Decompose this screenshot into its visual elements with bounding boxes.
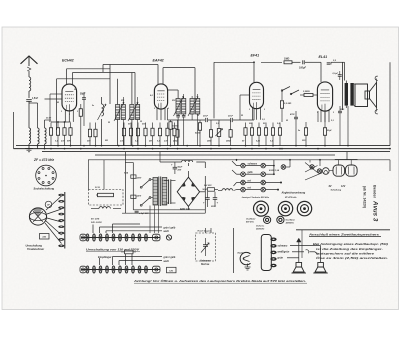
resistor 0.3M EL41 grid [300, 91, 317, 97]
wire HT distribution [122, 152, 205, 214]
screen resistor ECH42 [79, 104, 82, 146]
ground output jack [245, 264, 251, 271]
mains transformer [153, 177, 167, 207]
loudspeaker [355, 76, 378, 114]
output jack symbol [238, 252, 251, 265]
tuning arrow oscillator coil [98, 104, 107, 120]
IF transformer 2 secondary [190, 94, 200, 146]
wire to ground [28, 144, 30, 149]
trimmer capacitor 1 [264, 216, 271, 223]
capacitor 10nF coupling b [228, 116, 234, 123]
wire rectifier nodes [188, 163, 205, 213]
wire ECH42 anode top [57, 65, 158, 131]
dial lamp small [323, 168, 330, 175]
switch position box [40, 234, 50, 240]
label oszillator 600 [246, 218, 265, 231]
tube ECH42 [62, 84, 77, 122]
tube EL41 [317, 82, 332, 122]
pilot contact row gelb [237, 171, 274, 176]
resistor [144, 123, 147, 146]
wire HT right [331, 62, 390, 145]
coupling coil L2 [29, 128, 31, 144]
terminal strip lower [80, 266, 160, 273]
main bus wire 2 (chassis) [14, 148, 391, 150]
label Antennen-Buchse [199, 260, 212, 267]
second speaker 1 [292, 263, 307, 274]
tube EAF42 [154, 84, 167, 120]
wire transformer to mains strip [150, 206, 159, 234]
wire EAF42 top to EF41 grid line [158, 62, 254, 118]
capacitor tone at output transformer [338, 106, 342, 146]
second speaker 2 [313, 263, 328, 274]
main bus wire 3 [42, 151, 390, 153]
note Zweitlautsprecher text [313, 242, 388, 260]
resistor R1c [56, 123, 59, 146]
heater bus wire [95, 154, 335, 156]
pickup dashed box [196, 233, 216, 261]
alignment core 3 [297, 201, 311, 215]
motor boost dashed box [89, 187, 124, 205]
wires drum to lug strip [45, 196, 62, 244]
terminal strip upper [80, 234, 160, 241]
resistor [257, 123, 260, 146]
wire grid line left [51, 121, 71, 123]
resistor [173, 123, 176, 146]
vertical lug strip [58, 192, 65, 249]
wires terminal strip lower [100, 254, 163, 265]
speaker terminal block [261, 235, 276, 271]
wire EF41 grid [240, 61, 255, 120]
capacitor at EL41 top [327, 60, 337, 64]
caption bottom warning [133, 278, 307, 283]
wire dashed box feed [89, 160, 105, 190]
pilot contact a [310, 165, 314, 169]
fuse mains upper [124, 173, 136, 179]
resistor [244, 123, 247, 146]
alignment core 1 [254, 201, 269, 216]
pilot contact b [317, 169, 321, 173]
wire ECH42 grid left [45, 94, 63, 120]
alignment core 2 [278, 201, 292, 215]
wire antenna [28, 91, 30, 98]
capacitor IF2 tuning a [176, 114, 180, 146]
resistor [158, 123, 161, 146]
capacitor 1.5nF antenna [26, 98, 38, 101]
wire mains left vertical [125, 152, 133, 214]
resistor [264, 123, 267, 146]
speaker field choke [218, 189, 233, 191]
resistor R1d [63, 123, 66, 146]
tuning arrow IF1 secondary [128, 102, 138, 121]
bridge rectifier [177, 177, 199, 210]
tuning arrow IF1 primary [114, 102, 124, 121]
capacitor 50uF 25V [171, 162, 183, 174]
label Umschaltung 110 auf 220V [86, 247, 140, 251]
label Umschaltung Tonabnehmer [26, 244, 46, 252]
tube socket diagram [36, 165, 57, 186]
value labels row 2 [104, 124, 168, 143]
tuning arrow IF2 secondary [188, 97, 198, 117]
resistor 1 Mohm coupling [284, 57, 292, 64]
capacitor 4700pF tone [289, 111, 298, 146]
oscillator coil under ECH42 [102, 97, 104, 146]
panel border Zweitlautsprecher [296, 230, 390, 258]
drum switch ZF circle [45, 201, 52, 208]
electrolytic capacitor 50uF a [203, 189, 210, 207]
value labels row 3 [242, 123, 281, 143]
capacitor IF2 tuning b [182, 114, 186, 146]
fuse mains lower [131, 195, 136, 198]
wire antenna tap [29, 102, 38, 104]
IF transformer 1 primary [116, 79, 126, 146]
resistor [271, 123, 274, 146]
capacitor 10nF coupling a [203, 116, 209, 123]
label oszillator 1600 [286, 219, 296, 225]
pilot contact row rot [237, 179, 282, 184]
resistor R1b [49, 123, 52, 146]
resistor [250, 123, 253, 146]
resistor R1f [88, 123, 91, 146]
input tuned circuit coils [14, 103, 52, 149]
wire AF coupling [168, 108, 255, 120]
resistor R1e [69, 123, 72, 146]
mains lead-in coil [91, 207, 121, 209]
capacitor 3uF 30V [135, 211, 150, 215]
resistor [151, 123, 154, 146]
wire heater feed [88, 159, 390, 171]
terminal screw upper [166, 235, 171, 240]
IF transformer 2 primary [168, 90, 186, 114]
antenna [21, 56, 38, 77]
cathode components EL41 [302, 111, 332, 146]
label voltage taps [91, 219, 102, 224]
capacitor 0.1uF anode [333, 71, 342, 80]
drum switch wafer [29, 208, 46, 225]
label lamp voltages [329, 185, 346, 192]
output transformer [343, 62, 354, 110]
resistor 0.1M diode load [169, 120, 179, 146]
wires to speakers [287, 246, 321, 263]
label Abgleichanordnung [242, 192, 306, 199]
fuse lamp 6/12V [269, 160, 290, 172]
screen switch EF41 [281, 87, 299, 101]
wire lamps top [335, 152, 358, 165]
resistor fuse above lower strip [121, 250, 136, 254]
main bus wire 1 [16, 145, 390, 147]
resistor 1M AF a [173, 120, 179, 146]
resistor [129, 123, 132, 146]
ground antenna [25, 149, 33, 152]
scale lamp housing 1 [329, 165, 345, 176]
pilot contact row schwarz [237, 163, 274, 168]
wire pickup [206, 228, 212, 233]
wire antenna lower [28, 102, 30, 129]
trimmer capacitor 2 [277, 216, 284, 223]
wire riser speaker 1 [297, 238, 301, 262]
filter choke B+ [175, 160, 205, 168]
tube EF41 [250, 82, 264, 119]
resistor 0.5M [195, 120, 202, 146]
resistor 1M AF b [207, 120, 213, 146]
wire lamp feed diagonals [305, 160, 322, 180]
tube pin numbers [61, 108, 334, 116]
resistor 1M AF c [226, 120, 232, 146]
junction dots buses [28, 145, 391, 150]
value labels row 1 [46, 118, 91, 143]
capacitor 100pF coupling [299, 60, 306, 69]
wire EF41 to EL41 coupling [261, 61, 282, 63]
tuning arrow IF2 primary [174, 97, 184, 117]
wire coupling [292, 61, 301, 63]
voltage selector switch 220V [136, 178, 154, 189]
resistor R1g [94, 123, 97, 146]
wire pilot rows right [232, 160, 282, 191]
wires terminal strip upper [93, 224, 162, 233]
wire speaker [354, 84, 355, 106]
heading Anschluss Zweitlautsprecher [308, 232, 381, 236]
pilot contact row rot [237, 187, 279, 192]
resistor 0.1M screen [280, 101, 291, 122]
wire to EL41 grid [305, 62, 345, 82]
divider line bottom panels [233, 228, 235, 273]
volume potentiometer [216, 120, 223, 146]
electrolytic capacitor 50uF b [211, 192, 219, 208]
tone capacitor box 5uF [204, 185, 218, 191]
voltage selector switch 110V [137, 196, 154, 207]
brand vertical text [363, 185, 379, 222]
capacitor mains [164, 179, 176, 204]
capacitor 50pF at ECH42 [80, 92, 86, 126]
scale lamp housing 2 [345, 165, 358, 176]
value labels sprinkle top band [57, 89, 345, 132]
resistor [278, 123, 281, 146]
wire EAF42 top cap [163, 68, 195, 99]
resistor [166, 123, 169, 146]
resistor [136, 123, 139, 146]
antenna coil L1 [29, 77, 31, 91]
resistor [122, 123, 125, 146]
IF transformer 1 secondary [130, 73, 140, 146]
voltage box lower [167, 267, 177, 273]
